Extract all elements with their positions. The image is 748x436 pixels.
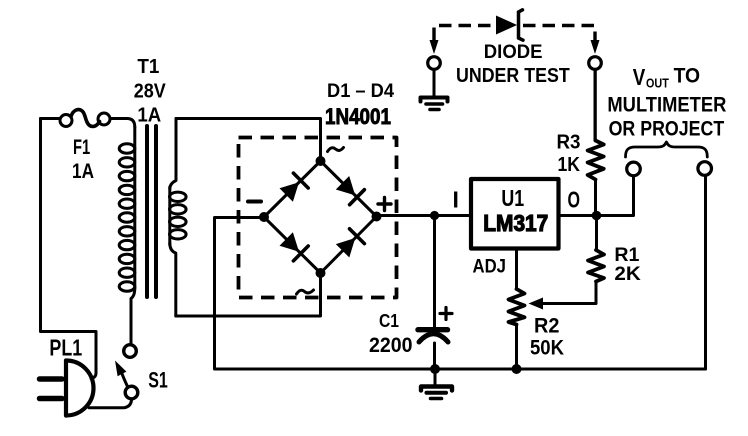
svg-text:D1 – D4: D1 – D4 [327, 81, 394, 102]
svg-text:LM317: LM317 [483, 210, 548, 236]
svg-text:ADJ: ADJ [473, 256, 507, 278]
svg-text:2K: 2K [614, 263, 640, 285]
svg-text:C1: C1 [379, 311, 399, 331]
svg-text:U1: U1 [501, 185, 524, 211]
svg-text:S1: S1 [148, 367, 168, 392]
svg-text:R2: R2 [534, 315, 559, 338]
svg-text:DIODE: DIODE [484, 42, 543, 63]
svg-text:V: V [633, 64, 646, 90]
svg-text:T1: T1 [137, 56, 159, 78]
svg-text:PL1: PL1 [49, 335, 82, 361]
svg-text:1N4001: 1N4001 [325, 104, 391, 129]
svg-text:R3: R3 [557, 131, 581, 154]
svg-text:O: O [568, 187, 581, 213]
svg-text:50K: 50K [530, 337, 564, 360]
svg-text:MULTIMETER: MULTIMETER [607, 93, 726, 117]
svg-text:F1: F1 [73, 135, 90, 159]
svg-text:TO: TO [674, 64, 701, 88]
svg-text:1K: 1K [558, 153, 581, 176]
svg-text:OUT: OUT [646, 76, 669, 91]
svg-text:I: I [453, 187, 459, 213]
svg-text:1A: 1A [137, 105, 161, 127]
svg-text:2200: 2200 [369, 334, 413, 357]
svg-text:1A: 1A [72, 159, 94, 183]
svg-text:OR PROJECT: OR PROJECT [609, 117, 725, 141]
svg-text:28V: 28V [134, 81, 167, 103]
svg-text:UNDER TEST: UNDER TEST [456, 64, 570, 87]
